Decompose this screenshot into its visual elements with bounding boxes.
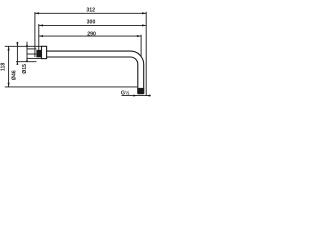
gasket block [36,50,41,57]
svg-text:G½: G½ [121,89,130,96]
tube top and outer bend [47,51,144,94]
extension line right 290 [140,35,142,57]
tube bottom and inner bend [47,57,138,94]
extension line right 312/300 [145,12,147,96]
svg-text:Ø15: Ø15 [22,64,28,74]
arrow 300 left [39,24,43,26]
tube end cap [138,93,144,95]
arrow 312 right [142,12,146,14]
dimension line D46 vertical [16,42,18,64]
dimension line 118 vertical [8,46,10,87]
bottom dimension line G1/2 [122,95,151,97]
arrow G12 left (right-pointing) [133,95,137,97]
extension line left 300/290 [38,24,40,51]
arrow 312 left [35,12,39,14]
wire: flange top extension line [5,45,42,47]
arrow 118 top [8,46,10,50]
arrow D46 top (down) [16,42,18,46]
extension line left 312 [34,12,36,57]
arrow 290 left [39,35,43,37]
arrow D15 bottom (up) [26,58,28,61]
arrow 300 right [142,24,146,26]
wire: centerline extension [27,53,36,55]
svg-text:290: 290 [87,31,96,37]
wire: bottom extension line 118 [5,86,138,88]
dimension line D15 vertical [26,42,28,62]
arrow D15 top (down) [26,45,28,49]
wire: flange bottom extension [27,57,42,59]
dimension line 290 [39,35,141,37]
dimension line 312 [35,12,146,14]
arrow G12 right (left-pointing) [146,95,150,97]
svg-text:312: 312 [86,8,95,14]
arrow 290 right [137,35,141,37]
thread band [137,88,144,94]
arrow D46 bottom (up) [16,62,18,65]
wire: extension line D15 top [27,48,36,50]
dimension line 300 [39,24,146,26]
svg-text:300: 300 [87,20,96,26]
arrow 118 bottom [8,83,10,87]
svg-text:118: 118 [1,63,7,71]
wire: bottom extension line D46 [16,61,36,63]
svg-text:Ø46: Ø46 [11,70,17,80]
flange rectangle [42,46,47,58]
